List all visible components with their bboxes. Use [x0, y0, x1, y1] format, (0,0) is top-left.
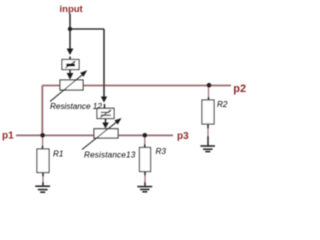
svg-text:R2: R2	[217, 100, 228, 109]
svg-text:p3: p3	[177, 131, 189, 142]
svg-text:Resistance 12: Resistance 12	[50, 102, 102, 111]
svg-text:Resistance13: Resistance13	[84, 150, 136, 159]
svg-text:p2: p2	[233, 83, 246, 95]
svg-text:input: input	[60, 4, 84, 15]
svg-text:p1: p1	[2, 130, 14, 141]
svg-text:R3: R3	[156, 147, 167, 156]
svg-text:R1: R1	[53, 150, 63, 159]
